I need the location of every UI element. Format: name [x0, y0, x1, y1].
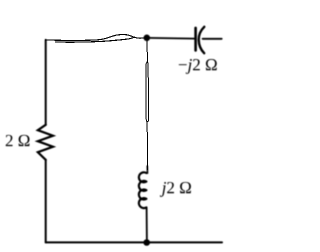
wire: left vertical rail lower segment [45, 160, 47, 243]
label: 2 Ω (value of resistor R1) [6, 135, 30, 146]
node: top junction dot [144, 35, 151, 42]
wire: bottom horizontal rail [46, 241, 222, 243]
wire: capacitor C1 right lead [203, 38, 222, 40]
wire: middle branch segment (retrace loop down to inductor stub) [146, 122, 148, 170]
inductor L1 (j2 ohm) coils [139, 172, 147, 208]
wire: middle branch hand-drawn retrace loop [146, 62, 149, 122]
capacitor C1 (-j2 ohm) left plate [194, 28, 197, 51]
capacitor C1 (-j2 ohm) right curved plate [199, 27, 205, 53]
resistor R1 (2 ohm) zigzag [38, 125, 53, 160]
label: -j2 Ω (value of capacitor C1) [179, 59, 217, 74]
label: j2 Ω (value of inductor L1) [160, 182, 191, 197]
wire: middle branch from inductor L1 to bottom node [146, 208, 148, 243]
wire: capacitor C1 left lead [147, 37, 195, 40]
wire: top horizontal hand-drawn retrace stroke [56, 37, 135, 42]
node: bottom junction dot [143, 239, 150, 246]
wire: middle branch lower stub into inductor [146, 166, 148, 173]
wire: top horizontal hand-drawn stroke (corner to top node) [45, 35, 147, 41]
wire: middle branch upper segment (top node to retrace loop) [146, 41, 148, 62]
wire: left vertical rail upper segment [45, 40, 47, 125]
